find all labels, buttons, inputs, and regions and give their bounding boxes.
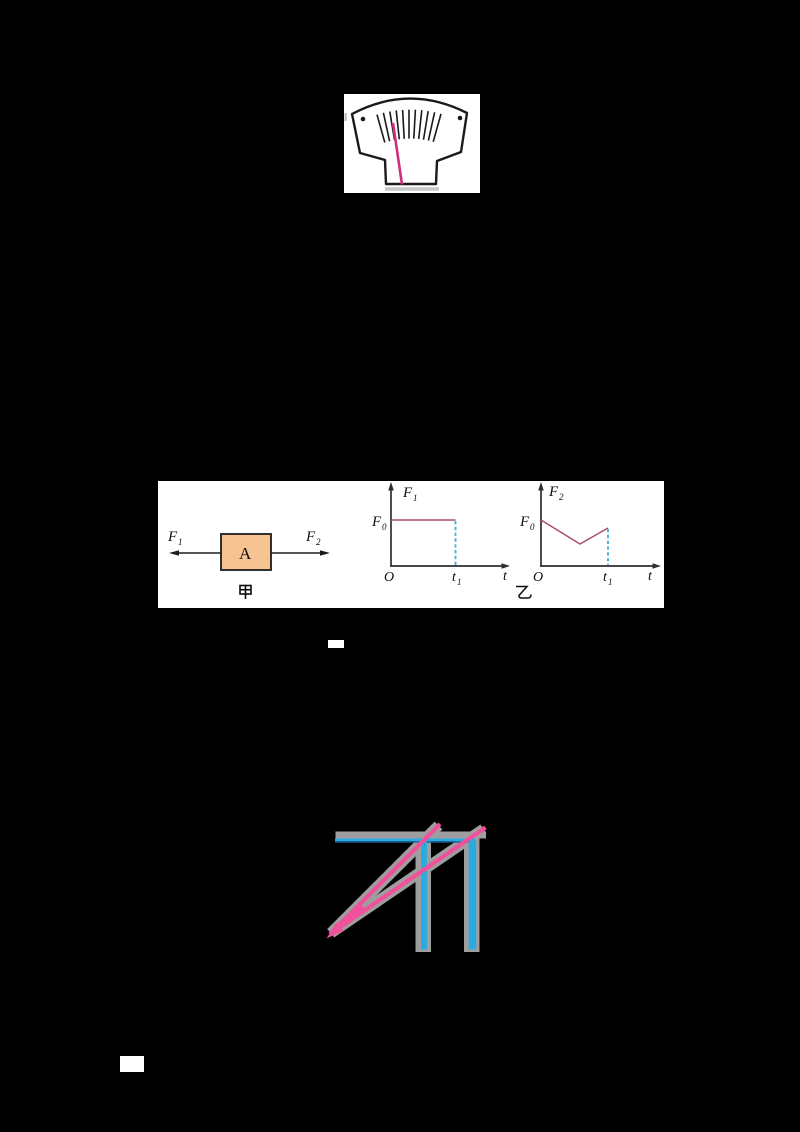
svg-text:F: F bbox=[402, 485, 413, 501]
svg-text:0: 0 bbox=[382, 522, 387, 532]
svg-text:F: F bbox=[371, 514, 382, 530]
svg-text:O: O bbox=[533, 570, 543, 585]
svg-text:A: A bbox=[239, 544, 252, 563]
svg-text:1: 1 bbox=[413, 493, 418, 503]
svg-text:0: 0 bbox=[530, 522, 535, 532]
svg-text:1: 1 bbox=[178, 537, 183, 547]
svg-text:1: 1 bbox=[457, 577, 462, 587]
svg-text:F: F bbox=[305, 529, 316, 545]
svg-text:2: 2 bbox=[559, 492, 564, 502]
svg-text:O: O bbox=[384, 570, 394, 585]
svg-text:2: 2 bbox=[316, 537, 321, 547]
svg-text:1: 1 bbox=[608, 577, 613, 587]
svg-text:F: F bbox=[519, 514, 530, 530]
svg-text:F: F bbox=[167, 529, 178, 545]
svg-text:F: F bbox=[548, 484, 559, 500]
